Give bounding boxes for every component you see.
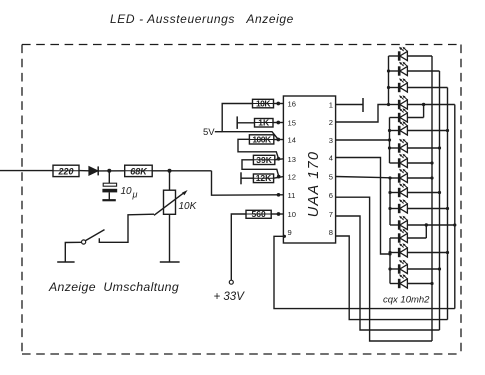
resistor R4 10K — [253, 103, 274, 105]
node pin9 — [283, 235, 286, 238]
wire input — [0, 170, 53, 172]
svg-text:12: 12 — [288, 173, 296, 182]
diode D17 — [89, 166, 98, 175]
terminal bar 1K — [236, 116, 238, 128]
wire diode to 68K — [98, 170, 125, 172]
wire pin2 to rail A — [336, 105, 389, 123]
resistor R5 1K — [255, 122, 274, 124]
wire switch to ground — [65, 242, 81, 261]
wire bus1 — [431, 56, 433, 341]
svg-text:16: 16 — [288, 100, 296, 109]
LED D9 — [390, 177, 399, 179]
wire anode D7 to bus — [407, 147, 439, 149]
rail D dot row14 — [388, 251, 391, 254]
svg-text:100K: 100K — [252, 134, 272, 144]
rail A dot row4 — [387, 103, 390, 106]
node pin12 — [277, 175, 281, 179]
svg-text:68K: 68K — [130, 167, 148, 177]
wire 12K left — [241, 177, 253, 179]
LED D2 — [389, 70, 400, 72]
potentiometer R3 10K — [169, 171, 171, 190]
node D11 on bus — [446, 207, 449, 210]
wire to pin 11 — [212, 171, 284, 195]
op-amp/IC U1 UAA 170 body — [283, 96, 335, 243]
dashed border frame — [22, 45, 461, 355]
wire bus4 — [454, 105, 456, 309]
svg-text:13: 13 — [288, 155, 296, 164]
wire anode D16 to bus — [407, 283, 432, 285]
wire 220 to diode — [79, 170, 89, 172]
node D6 on bus — [446, 129, 449, 132]
wire 1K left — [237, 122, 254, 124]
resistor R6 100K — [249, 139, 273, 141]
resistor R9 560 — [246, 213, 271, 215]
wire anode D9 to bus — [407, 177, 432, 179]
wire anode D4 to bus4 — [407, 104, 454, 106]
svg-text:10K: 10K — [179, 201, 198, 212]
terminal bar pin1 — [362, 98, 364, 112]
node D16 on bus — [430, 282, 433, 285]
wire anode D1 to bus1 — [407, 55, 432, 57]
wire 39K to pin13 — [275, 159, 284, 160]
wire 5V rail — [222, 104, 278, 140]
node riser D12/D13 — [425, 223, 428, 226]
svg-text:4: 4 — [329, 154, 333, 163]
ground switch (terminal bar) — [57, 261, 74, 263]
resistor R2 68K — [125, 170, 153, 172]
svg-text:2: 2 — [329, 118, 333, 127]
node pin16 — [276, 102, 280, 106]
node D10 on bus — [438, 191, 441, 194]
resistor R8 12K — [253, 177, 273, 179]
wire anode D5 to riser — [407, 117, 423, 119]
svg-text:1K: 1K — [258, 118, 270, 128]
LED D8 — [390, 162, 400, 164]
wire 100K left loop — [238, 139, 279, 158]
rail D dot pin4 — [388, 252, 391, 255]
node pin10 — [277, 212, 281, 216]
svg-text:9: 9 — [288, 228, 292, 237]
capacitor C1 10u — [108, 171, 110, 183]
wire 5V stub — [215, 131, 222, 133]
svg-text:5: 5 — [329, 173, 333, 182]
wire anode D13 to riser — [407, 237, 426, 239]
wire anode D14 to bus — [407, 252, 447, 254]
resistor R7 39K — [253, 159, 274, 161]
rail C dot row11 — [388, 207, 391, 210]
rail C dot row10 — [388, 191, 391, 194]
svg-text:10: 10 — [121, 186, 133, 197]
wire riser D5-D4 — [423, 105, 425, 118]
wire switch contact to wiper — [99, 214, 154, 242]
wire anode D2 to bus2 — [407, 70, 439, 72]
wire bus2 — [439, 71, 441, 330]
wire anode D10 to bus — [407, 192, 439, 194]
ground pot (terminal bar) — [160, 261, 180, 263]
node D7 on bus — [438, 146, 441, 149]
LED D15 — [390, 268, 399, 270]
wire 560 to pin10 — [271, 213, 283, 215]
node pin14 — [276, 138, 280, 142]
node B pot-top junction — [168, 169, 172, 173]
resistor R1 220 — [53, 170, 79, 172]
svg-text:10: 10 — [288, 210, 296, 219]
wire pin8 return — [336, 236, 448, 320]
node riser D4/D5 — [422, 103, 425, 106]
svg-text:560: 560 — [252, 209, 266, 219]
rail A dot row3 — [387, 86, 390, 89]
svg-text:11: 11 — [288, 191, 296, 200]
svg-text:7: 7 — [329, 210, 333, 219]
wire cathode rail A — [388, 56, 390, 105]
node D8 on bus — [430, 161, 433, 164]
rail B dot row6 — [388, 129, 391, 132]
svg-text:μ: μ — [132, 190, 138, 200]
terminal bar 12K — [240, 172, 242, 184]
wire anode D12 to bus4 — [407, 224, 454, 226]
wire 68K to corner — [152, 170, 211, 172]
svg-text:6: 6 — [329, 191, 333, 200]
svg-text:15: 15 — [288, 119, 296, 128]
wire pin1 — [336, 104, 363, 106]
node pin15 — [276, 121, 280, 125]
svg-text:cqx 10mh2: cqx 10mh2 — [383, 295, 430, 306]
wire 10K to pin16 — [274, 103, 284, 105]
wire cathode rail C — [389, 178, 391, 225]
svg-text:3: 3 — [329, 136, 333, 145]
wire anode D3 to bus3 — [407, 87, 447, 89]
node D9 on bus — [430, 176, 433, 179]
svg-text:8: 8 — [329, 228, 333, 237]
switch S1 — [82, 240, 86, 244]
svg-text:Anzeige Umschaltung: Anzeige Umschaltung — [48, 280, 179, 294]
wire 100K to pin14 — [274, 139, 284, 141]
wire 560 to +33V — [231, 214, 246, 280]
svg-text:UAA 170: UAA 170 — [306, 151, 322, 218]
svg-text:39K: 39K — [256, 155, 272, 165]
terminal +33V — [229, 280, 233, 284]
rail A dot row2 — [387, 69, 390, 72]
node pin11 — [277, 193, 281, 197]
LED D5 — [390, 117, 400, 119]
LED D7 — [390, 147, 400, 149]
LED D6 — [390, 130, 400, 132]
wire cathode rail B — [389, 118, 391, 164]
LED D12 — [390, 224, 399, 226]
svg-text:12K: 12K — [256, 173, 272, 183]
wire pin3 to rail B — [336, 139, 390, 141]
wire pin7 return — [336, 216, 440, 330]
wire cathode rail D — [389, 238, 391, 284]
wire pin5 to rail C — [336, 177, 390, 178]
wire bus3 — [447, 88, 449, 320]
node D12 on bus4 — [453, 223, 456, 226]
LED D11 — [390, 208, 399, 210]
LED D10 — [390, 192, 399, 194]
wire riser D13-D12 — [425, 225, 427, 238]
svg-text:+ 33V: + 33V — [214, 291, 246, 303]
wire 12K to pin12 — [274, 177, 284, 179]
wire anode D11 to bus — [407, 208, 447, 210]
rail B dot row7 — [388, 146, 391, 149]
svg-text:LED - Aussteuerungs Anzeige: LED - Aussteuerungs Anzeige — [110, 12, 294, 26]
wire 1K to pin15 — [273, 122, 283, 124]
node D14 on bus — [446, 251, 449, 254]
node A junction — [107, 169, 111, 173]
ink speck above D1 — [400, 48, 402, 50]
wire anode D8 to bus — [407, 162, 432, 164]
svg-text:5V: 5V — [203, 127, 215, 138]
svg-text:14: 14 — [288, 136, 296, 145]
wire 39K left loop — [242, 160, 279, 177]
LED D14 — [390, 252, 399, 254]
wire pin9 return — [274, 236, 455, 308]
wire anode D15 to bus — [407, 268, 439, 270]
LED D3 — [389, 87, 400, 89]
wire pin4 to rail D — [336, 158, 390, 255]
svg-text:1: 1 — [329, 101, 333, 110]
wire anode D6 to bus — [407, 130, 447, 132]
LED D1 — [389, 55, 400, 57]
svg-text:220: 220 — [57, 167, 73, 177]
LED D13 — [390, 237, 399, 239]
svg-text:10K: 10K — [256, 98, 271, 108]
wire pin6 return — [336, 197, 432, 341]
LED D16 — [390, 283, 399, 285]
rail B dot pin3 — [388, 138, 391, 141]
node D15 on bus — [438, 267, 441, 270]
node pin13 — [277, 157, 281, 161]
rail D dot row15 — [388, 267, 391, 270]
LED D4 — [389, 104, 400, 106]
rail C dot row9 — [388, 176, 391, 179]
